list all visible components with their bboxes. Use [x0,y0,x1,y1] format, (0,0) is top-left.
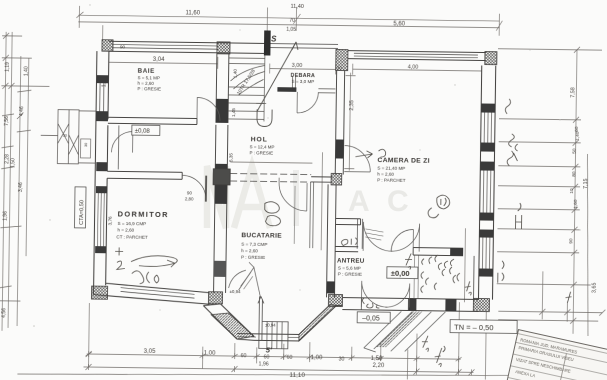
stair upper treads [229,58,265,64]
vertical dim 2.35 inside camera [344,73,355,171]
chimney box outside left wall [57,110,79,164]
svg-text:3,65: 3,65 [592,283,598,294]
right ext tick y139 [499,142,581,143]
dim line 3.00 over debara [270,64,336,75]
right ext tick y317 [498,320,598,321]
porch wall dark fill left [328,294,342,306]
stair lower treads [228,87,264,119]
section S black bar [264,30,271,55]
dormitor top wall [107,171,182,179]
stair winder fan [230,65,264,95]
right ext tick y116 [499,119,581,120]
debara right stub [318,89,335,93]
bay left diagonal hatch [211,313,254,340]
svg-text:7,58: 7,58 [570,87,576,98]
bottom extension line x383 [380,343,382,361]
row B ticks [88,364,471,375]
svg-text:11,60: 11,60 [185,10,200,16]
front door arc left [361,281,387,307]
svg-text:S = 3,0 MP: S = 3,0 MP [291,79,314,84]
dormitor bottom window glazing [120,288,194,298]
bay right diagonal wall [299,304,343,342]
block dormitor-bay crosshatch [208,292,222,304]
camera bottom-left wall [413,248,463,256]
antreu door arc 1 [363,222,392,251]
svg-text:1,50: 1,50 [10,158,16,168]
right wall dark fill w1 top [481,103,495,112]
dormitor bottom wall band [93,283,209,304]
baie right wall dark fill [216,99,228,123]
corner block top-right crosshatch [485,52,497,65]
handwriting 58m2 rotated [507,134,518,166]
baie window glazing [112,45,218,50]
porch dim ext x543 [541,271,544,319]
svg-text:±0,94: ±0,94 [230,289,242,294]
svg-text:DORMITOR: DORMITOR [118,209,169,219]
right wall dark fill w3 bottom [479,268,493,276]
svg-text:1,00: 1,00 [204,351,216,357]
right wall window2 glazing [483,171,491,213]
svg-text:TN = – 0,50: TN = – 0,50 [454,323,494,333]
bottom extension line x259 [256,347,258,363]
top dimension line second [78,22,499,28]
svg-text:S = 7,3 CMP: S = 7,3 CMP [241,242,267,247]
block top baie-right hatch [217,42,230,54]
camera top window glazing [354,53,478,57]
baie bottom wall [108,117,197,124]
svg-text:P : GRESIE: P : GRESIE [137,86,161,91]
stair arrow diagonal [257,41,298,112]
wallB dashed section [230,173,311,182]
porch door gap [361,298,408,311]
right wall dark fill w2 bottom [480,212,494,220]
svg-text:60: 60 [241,353,247,359]
stair handrail u-turn [257,109,272,126]
right ext tick y183 [498,186,580,187]
antreu door arc 2 [391,223,419,251]
right wall window3 glazing [482,238,489,269]
svg-text:30: 30 [84,143,88,147]
svg-text:80: 80 [571,171,577,177]
camera interior vertical ext [464,228,465,302]
antreu top wall [336,218,361,224]
left dim line 4 [26,58,29,256]
svg-text:1,19: 1,19 [5,62,11,72]
STAMP [503,330,607,380]
svg-text:S = 16,9 CMP: S = 16,9 CMP [117,221,146,226]
bottom extension line x286 [283,344,285,360]
porch bottom wall band [342,298,478,312]
svg-text:HOL: HOL [251,136,268,143]
left ticks [0,90,31,228]
handwriting 665 diagonal [438,259,454,270]
bottom extension line x419 [415,334,418,372]
left wall dark fill mid [96,111,108,121]
svg-text:1,45: 1,45 [231,108,236,117]
svg-text:C: C [387,185,409,218]
svg-text:BAIE: BAIE [138,68,155,75]
bucatarie right short line [310,182,314,248]
bottom extension line x312 [309,342,311,362]
kitchen terrace door arc left [238,262,260,297]
svg-text:2,20: 2,20 [373,363,385,369]
bottom extension line x461 [457,302,460,372]
svg-text:30: 30 [63,134,67,138]
right ext tick y206 [498,209,580,210]
left lower connector [0,300,20,302]
svg-text:2,80: 2,80 [185,196,194,201]
svg-text:P : PARCHET: P : PARCHET [377,178,406,183]
debara bottom stub [277,87,296,92]
tick mid top [293,7,300,31]
stamp inner lines [503,334,607,380]
wallA dark fill [335,139,343,158]
debara left wall [292,76,295,91]
level box TN [450,320,517,334]
kitchen door leaf hatch [241,272,253,289]
chimney connector [40,110,96,163]
left wall window baie glazing [100,83,104,111]
svg-text:S = 5,6 MP: S = 5,6 MP [338,265,361,270]
svg-text:±0,00: ±0,00 [391,269,410,278]
svg-text:CT : PARCHET: CT : PARCHET [116,234,148,239]
corner block bottom-left crosshatch [91,286,107,299]
wallB junction crosshatch [331,173,342,185]
dormitor right wall dark fill [215,164,228,204]
handwriting 133 rotated [498,261,504,283]
bay steps treads [267,322,282,349]
handwriting H35 rotated [422,336,429,352]
top-left exterior wall band [109,41,270,53]
circled 16 squiggle a [437,195,450,209]
svg-text:5': 5' [266,345,272,354]
stair right boundary [263,55,266,121]
bottom extension line x237 [234,343,236,356]
svg-text:70: 70 [289,18,295,24]
svg-text:1,96: 1,96 [3,211,9,221]
kitchen sink squiggle [264,202,280,226]
top mid thin wall [270,44,338,49]
svg-text:1,40: 1,40 [233,69,238,78]
svg-text:S: S [271,35,277,44]
svg-text:±0,94: ±0,94 [265,322,276,327]
vertical ext line at section S [266,7,268,30]
svg-text:h = 2,60: h = 2,60 [241,248,258,253]
bay steps box [257,296,288,348]
svg-text:S = 21,40 MP: S = 21,40 MP [377,166,405,171]
svg-text:4,00: 4,00 [408,64,419,70]
camera door arc [344,146,370,172]
block wallB left hatch [213,169,230,185]
left dim line 2 [8,32,12,328]
bay left diagonal wall [203,304,254,340]
svg-text:1,40: 1,40 [24,66,30,76]
dormitor right wall dark fill low [214,261,226,277]
svg-text:90: 90 [568,238,574,244]
left exterior wall [94,51,109,295]
dormitor right wall [214,125,228,293]
right wall dark fill w2 top [480,161,494,170]
svg-text:2,35: 2,35 [349,100,355,111]
porch wall block right crosshatch [473,298,489,311]
right porch dim line [498,301,602,322]
handwriting 268 rotated [565,292,571,303]
right corner ext down [484,312,487,380]
right exterior wall [478,65,495,299]
top-right exterior wall band [348,51,486,61]
svg-text:P : GRESIE: P : GRESIE [241,255,265,260]
corridor closet arc [112,131,133,152]
junction vertical ext [321,152,322,250]
dormitor door leaf [205,176,207,202]
block wallA top crosshatch [336,49,348,70]
STAIRS [228,41,336,127]
bottom long base line [17,368,557,380]
level box etaj rotated [74,187,86,228]
antreu divider wall [327,184,337,297]
dim line 4.00 inside camera [353,64,482,77]
right ext tick y249 [497,252,579,253]
svg-text:1,05: 1,05 [286,27,296,33]
svg-text:ANTREU: ANTREU [337,257,365,264]
terrace scribble b [425,278,436,290]
antreu closet wall [335,246,358,251]
bottom dim row B [84,367,474,372]
bay right diagonal hatch [299,304,337,342]
front door arc right [385,283,409,307]
circled 16 squiggle b [428,208,439,218]
corridor closet partition [117,125,120,169]
camera bottom-left wall dark fill [450,248,463,256]
wallB solid section [311,177,332,182]
handwriting top right squiggle [505,99,510,114]
left wall window dormitor glazing [97,193,104,246]
svg-text:11,40: 11,40 [291,4,304,10]
tick left end top [76,6,83,28]
dormitor sofa swoosh [131,255,177,266]
level box +-0.08 [132,125,160,135]
handwriting 301 rotated [453,273,460,283]
svg-text:11,10: 11,10 [289,372,305,379]
svg-text:30: 30 [339,357,345,363]
svg-text:1,00: 1,00 [311,355,323,361]
svg-text:A: A [348,185,370,218]
right wall dark fill w3 top [479,229,493,237]
antreu door leaf hatch [365,229,383,240]
svg-text:90: 90 [187,190,193,195]
svg-text:3,04: 3,04 [153,57,165,63]
kitchen door leaf vertical [293,186,296,244]
handwriting 420 diagonal [405,253,412,269]
right ext tick y46 [498,49,602,50]
dim line 3.04 over baie window [109,55,218,69]
bottom extension line x205 [201,347,203,369]
right ext tick y163 [498,166,580,167]
dormitor door arc [182,175,206,199]
handwriting cou [362,298,379,308]
bottom dim row A [87,354,461,359]
svg-text:1,60: 1,60 [573,199,579,209]
left dim line 1 [2,32,6,331]
front steps hatched band [376,311,422,348]
porch wall small fill at door [408,298,416,310]
svg-text:3,76: 3,76 [107,216,112,225]
svg-text:P : GRESIE: P : GRESIE [338,271,362,276]
corner block top-left crosshatch [102,40,113,52]
handwriting H2 [515,203,521,229]
bay bottom wall band [237,334,299,341]
right ext tick y226 [497,229,579,230]
svg-text:h = 2,60: h = 2,60 [137,81,154,86]
svg-text:7,15: 7,15 [583,178,589,189]
svg-text:3,05: 3,05 [144,349,156,355]
camera right lower wall [472,256,475,299]
tick right end top [496,14,502,36]
porch wall dark fill mid [445,299,456,311]
left dim line 3 [17,56,21,326]
hol horizontal ext [230,162,312,163]
left wall dark fill above window [96,186,107,193]
steps vertical ext [406,349,408,379]
left wall inner lower [106,125,108,285]
right wall dark fill w1 bottom [481,142,495,151]
front steps diagonals [364,311,446,353]
chimney label box [80,139,90,158]
handwriting 235 rotated [435,346,446,367]
svg-text:3,00: 3,00 [292,63,303,69]
svg-text:h = 2,60: h = 2,60 [377,172,394,177]
antreu nw stub wall [357,219,362,249]
bottom extension line x354 [351,347,353,361]
svg-text:90: 90 [120,44,126,49]
svg-text:50: 50 [572,148,578,154]
watermark bar [293,170,299,226]
row A slashes [86,352,462,361]
WATERMARK [207,166,409,228]
svg-text:S = 5,1 MP: S = 5,1 MP [138,75,160,80]
svg-text:7,56: 7,56 [4,116,10,126]
debara door arc [297,92,318,113]
hol boundary line [256,102,266,104]
svg-text:h = 2,60: h = 2,60 [117,227,134,232]
svg-text:5,35: 5,35 [228,153,233,162]
handwriting 61pct [341,238,357,246]
bottom extension line x91 [88,303,91,367]
top dimension line overall [78,15,499,21]
left low rotated label tick [0,286,12,288]
svg-text:3,46: 3,46 [18,182,24,192]
svg-text:1,40: 1,40 [575,131,581,141]
svg-text:5,60: 5,60 [393,21,405,27]
sofa arrow [167,260,175,267]
camera sw door arc [391,229,413,251]
svg-text:CAMERA DE ZI: CAMERA DE ZI [377,157,430,165]
terrace scribble a [429,255,452,276]
svg-text:CTA=0,50: CTA=0,50 [79,200,85,225]
left wall dark fill upper [96,75,108,83]
kitchen terrace door arc right [229,270,246,288]
antreu divider dark fill [327,281,335,293]
kitchen door arc in wallB [279,178,307,211]
handwriting col right of antreu [421,259,424,293]
camera arrow note [355,149,385,158]
svg-text:±0,08: ±0,08 [135,129,151,135]
stamp body [503,330,607,380]
left wall dark fill at dormitor wall [96,162,107,171]
right main dim line [573,50,577,334]
svg-text:4,46: 4,46 [19,106,25,116]
INTERIOR [105,52,476,308]
svg-text:60: 60 [574,126,580,132]
handwriting 400 rotated [465,281,472,295]
svg-text:S = 12,4 MP: S = 12,4 MP [250,144,275,149]
WALLS [93,41,496,354]
svg-text:–0,05: –0,05 [362,315,380,322]
wall corner ext up [102,25,104,41]
svg-text:1,96: 1,96 [259,361,269,367]
watermark big A [234,166,270,228]
stamp text rows [508,337,578,380]
baie right wall [216,54,229,123]
right wall window1 glazing [484,113,491,143]
level box 0.00 [387,267,418,279]
row A ticks [89,351,459,362]
terrace left boundary [414,256,419,299]
svg-text:60: 60 [264,354,270,360]
svg-text:4,56: 4,56 [1,308,7,318]
bay bottom glazing [238,336,299,339]
left horizontal connector [1,36,50,87]
right secondary dim line [585,154,591,336]
svg-text:10: 10 [569,188,575,194]
left wall dark fill below window [95,246,106,253]
handwriting 50B [132,271,159,284]
level box -0.05 [357,312,390,323]
right ext tick y281 [497,284,591,285]
svg-text:60: 60 [287,355,293,361]
watermark big N [207,166,226,228]
svg-text:P : GRESIE: P : GRESIE [249,150,273,155]
svg-text:BUCATARIE: BUCATARIE [241,232,282,240]
svg-text:1,50: 1,50 [371,356,383,362]
wallA camera left [335,70,344,174]
baie door arc [197,98,220,121]
handwriting +2 [115,247,125,269]
